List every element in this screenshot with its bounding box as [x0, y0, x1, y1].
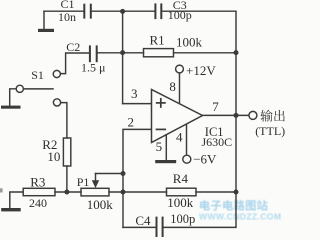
wire	[122, 11, 124, 103]
svg-text:4: 4	[176, 129, 183, 144]
edge artifact mark	[0, 188, 3, 192]
svg-text:R1: R1	[150, 33, 165, 48]
wire pin5	[165, 135, 167, 160]
node junction	[234, 190, 239, 195]
node junction	[64, 190, 69, 195]
svg-text:P1: P1	[77, 175, 90, 189]
wire	[235, 53, 237, 116]
wire wiper	[96, 173, 124, 175]
ground	[38, 11, 54, 32]
terminal output	[249, 111, 257, 119]
svg-text:C1: C1	[61, 0, 75, 11]
wire	[55, 191, 81, 193]
resistor R2	[63, 138, 70, 166]
resistor R1	[144, 49, 174, 57]
svg-text:100k: 100k	[167, 195, 194, 210]
minus input mark	[157, 128, 166, 130]
wire pin3	[123, 103, 152, 105]
node junction	[121, 190, 126, 195]
svg-text:100k: 100k	[176, 34, 203, 49]
wire	[123, 226, 156, 228]
wire	[163, 192, 236, 227]
wire pin4	[186, 125, 188, 155]
wire	[66, 166, 68, 192]
svg-text:100p: 100p	[170, 212, 195, 226]
svg-text:10: 10	[47, 149, 60, 164]
svg-text:J630C: J630C	[202, 135, 233, 149]
svg-text:C2: C2	[66, 40, 80, 54]
svg-text:100k: 100k	[87, 197, 114, 212]
node junction	[120, 50, 125, 55]
resistor R3	[23, 188, 55, 195]
wire pin2	[123, 129, 152, 173]
terminal +12V	[176, 65, 184, 73]
svg-text:8: 8	[169, 79, 176, 94]
svg-text:R3: R3	[30, 174, 45, 189]
svg-text:10n: 10n	[58, 10, 76, 24]
node junction	[234, 50, 239, 55]
wire pin7	[203, 114, 249, 116]
ground	[1, 208, 21, 211]
ground	[155, 160, 176, 163]
label output (Chinese)	[261, 110, 285, 122]
svg-text:WWW.CNDZZ.COM: WWW.CNDZZ.COM	[199, 212, 281, 222]
wiper arrow	[92, 174, 99, 189]
capacitor C1	[84, 5, 91, 18]
svg-text:(TTL): (TTL)	[255, 124, 285, 138]
svg-text:240: 240	[29, 196, 47, 210]
wire	[91, 10, 156, 12]
svg-text:100p: 100p	[168, 8, 192, 22]
node junction	[121, 171, 126, 176]
wire	[235, 115, 237, 192]
svg-text:2: 2	[128, 115, 135, 130]
svg-text:S1: S1	[31, 68, 44, 82]
capacitor C2	[90, 46, 97, 61]
wire	[97, 52, 144, 54]
resistor R4	[167, 188, 197, 196]
capacitor C4	[157, 218, 163, 237]
svg-text:+12V: +12V	[186, 63, 216, 78]
wire	[109, 191, 167, 193]
capacitor C3	[155, 4, 161, 18]
wire	[122, 174, 124, 228]
svg-text:3: 3	[131, 86, 138, 101]
svg-text:7: 7	[212, 99, 219, 114]
terminal -6V	[183, 155, 191, 163]
svg-text:C4: C4	[135, 213, 151, 228]
node A junction	[120, 9, 125, 14]
wire	[174, 52, 237, 54]
wire pin8	[179, 73, 181, 103]
wire	[44, 10, 84, 12]
wire	[161, 11, 236, 52]
potentiometer P1	[81, 188, 109, 196]
switch S1	[16, 70, 60, 106]
wire	[10, 89, 16, 106]
wire	[10, 192, 23, 208]
op-amp U1 triangle	[152, 90, 203, 143]
svg-text:1.5 μ: 1.5 μ	[81, 61, 105, 75]
wire	[196, 191, 236, 193]
wire	[61, 53, 90, 74]
svg-text:5: 5	[156, 139, 163, 154]
ground	[1, 106, 21, 109]
plus input mark	[157, 99, 165, 107]
wire throw to R2	[61, 103, 67, 138]
svg-text:−6V: −6V	[193, 152, 217, 167]
node junction	[234, 113, 239, 118]
svg-text:R4: R4	[173, 171, 189, 186]
